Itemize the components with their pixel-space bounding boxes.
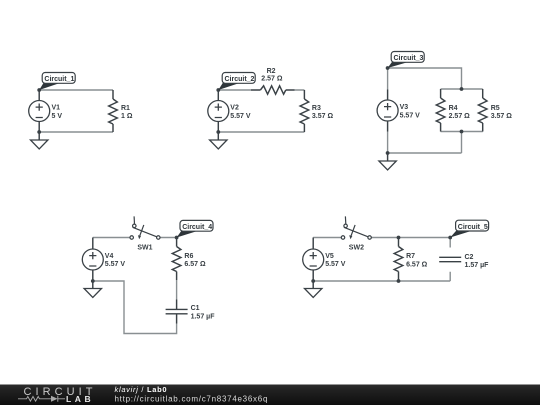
svg-text:2.57 Ω: 2.57 Ω	[449, 113, 471, 120]
svg-text:5.57 V: 5.57 V	[105, 261, 126, 268]
svg-text:klavirj / Lab0: klavirj / Lab0	[115, 385, 168, 394]
svg-text:5.57 V: 5.57 V	[400, 113, 421, 120]
svg-text:LAB: LAB	[66, 394, 94, 404]
svg-text:6.57 Ω: 6.57 Ω	[406, 261, 428, 268]
svg-text:3.57 Ω: 3.57 Ω	[312, 113, 334, 120]
svg-text:R3: R3	[312, 105, 321, 112]
svg-text:V4: V4	[105, 253, 114, 260]
svg-text:SW1: SW1	[137, 245, 152, 252]
svg-text:Circuit_2: Circuit_2	[225, 76, 255, 83]
svg-text:5.57 V: 5.57 V	[230, 113, 251, 120]
svg-text:Circuit_1: Circuit_1	[44, 76, 74, 83]
svg-text:1.57 µF: 1.57 µF	[191, 314, 216, 321]
svg-text:6.57 Ω: 6.57 Ω	[184, 261, 206, 268]
svg-text:R1: R1	[121, 105, 130, 112]
svg-text:Circuit_4: Circuit_4	[182, 224, 212, 231]
svg-text:1.57 µF: 1.57 µF	[465, 262, 490, 269]
svg-text:C1: C1	[191, 305, 200, 312]
svg-text:R6: R6	[184, 253, 193, 260]
svg-text:SW2: SW2	[349, 245, 364, 252]
svg-text:5 V: 5 V	[52, 113, 63, 120]
svg-text:V5: V5	[325, 253, 334, 260]
svg-text:3.57 Ω: 3.57 Ω	[491, 113, 513, 120]
svg-text:Circuit_3: Circuit_3	[394, 55, 424, 62]
svg-text:V3: V3	[400, 104, 409, 111]
svg-text:V1: V1	[52, 105, 61, 112]
svg-text:http://circuitlab.com/c7n8374e: http://circuitlab.com/c7n8374e36x6q	[115, 395, 269, 404]
svg-text:R4: R4	[449, 105, 458, 112]
svg-text:R7: R7	[406, 253, 415, 260]
svg-text:V2: V2	[230, 105, 239, 112]
svg-text:Circuit_5: Circuit_5	[458, 224, 488, 231]
svg-text:1 Ω: 1 Ω	[121, 113, 133, 120]
svg-text:5.57 V: 5.57 V	[325, 261, 346, 268]
svg-text:R2: R2	[267, 68, 276, 75]
svg-text:C2: C2	[465, 254, 474, 261]
svg-text:2.57 Ω: 2.57 Ω	[261, 76, 283, 83]
svg-text:R5: R5	[491, 105, 500, 112]
